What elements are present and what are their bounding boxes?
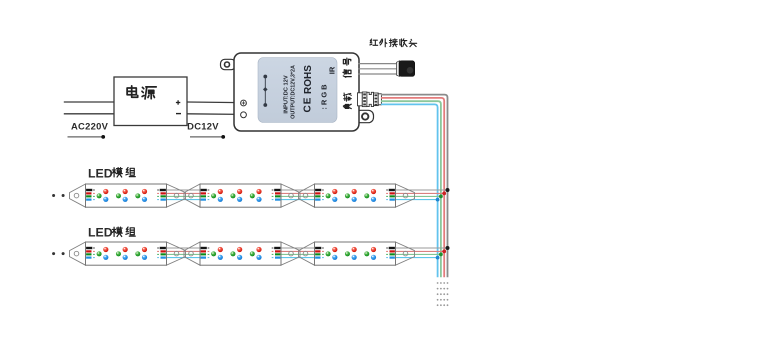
svg-text:INPUT:DC 12V: INPUT:DC 12V [284, 75, 290, 113]
row1 continuation dots left [52, 194, 65, 197]
label LED模组 row2 [88, 226, 135, 240]
wire row2 black [150, 247, 448, 249]
label 红外接收头 (IR receiver head) [370, 39, 417, 47]
label 负载 (load) [343, 93, 351, 109]
junction row2 B [436, 256, 440, 260]
wire IR pin2 [359, 68, 398, 70]
wire AC neutral in [64, 113, 114, 115]
junction row1 B [436, 198, 440, 202]
LED module M4 [70, 242, 186, 265]
junction row1 common [446, 188, 450, 192]
LED module M2 [184, 184, 300, 207]
junction row2 R [442, 250, 446, 254]
power supply PS1 [114, 77, 187, 126]
wire IR pin1 [359, 63, 398, 65]
terminal minus [241, 112, 247, 118]
connector J1 (load output) [358, 92, 382, 107]
junction row2 common [446, 246, 450, 250]
wire row1 blue [150, 199, 438, 201]
wire DC +12V [187, 101, 241, 104]
wire AC line in [64, 101, 114, 103]
wire row1 red [150, 192, 444, 194]
svg-text:OUTPUT:DC12V,3*2A: OUTPUT:DC12V,3*2A [290, 65, 296, 119]
svg-text:ROHS: ROHS [303, 65, 314, 94]
mount ear left [221, 59, 236, 69]
svg-text:DC12V: DC12V [187, 121, 219, 132]
LED module M3 [299, 184, 415, 207]
wire bus B [381, 104, 438, 277]
wire row2 green [150, 253, 441, 255]
LED module M6 [299, 242, 415, 265]
label 信号 (signal) [343, 58, 351, 77]
LED module M1 [70, 184, 186, 207]
svg-text:LED: LED [88, 166, 113, 180]
svg-text::RGB: :RGB [319, 82, 328, 109]
label LED模组 row1 [88, 166, 135, 180]
bus continuation dots [437, 282, 449, 306]
wire bus common (gray) [381, 95, 448, 278]
wire row2 red [150, 250, 444, 252]
junction row2 G [439, 253, 443, 257]
wire bus G [381, 101, 441, 277]
row2 continuation dots left [52, 252, 65, 255]
svg-text:CE: CE [303, 97, 314, 113]
terminal plus [241, 100, 247, 106]
wire row1 black [150, 189, 448, 191]
controller body [234, 53, 359, 131]
wire DC GND [187, 113, 241, 116]
junction row1 R [442, 192, 446, 196]
arrow DC flow [190, 135, 225, 139]
arrow AC flow [68, 135, 106, 139]
svg-text:LED: LED [88, 226, 113, 240]
junction row1 G [439, 195, 443, 199]
mount ear right [356, 110, 374, 122]
dip slider graphic [263, 75, 268, 107]
svg-text:IR: IR [327, 66, 336, 74]
wire row2 blue [150, 257, 438, 259]
wire row1 green [150, 195, 441, 197]
wire IR pin3 [359, 73, 398, 75]
svg-text:AC220V: AC220V [71, 121, 109, 132]
label panel [258, 58, 337, 123]
controller U1 [221, 53, 374, 131]
wire bus R [381, 98, 444, 277]
LED module M5 [184, 242, 300, 265]
IR receiver U2 [397, 61, 415, 77]
